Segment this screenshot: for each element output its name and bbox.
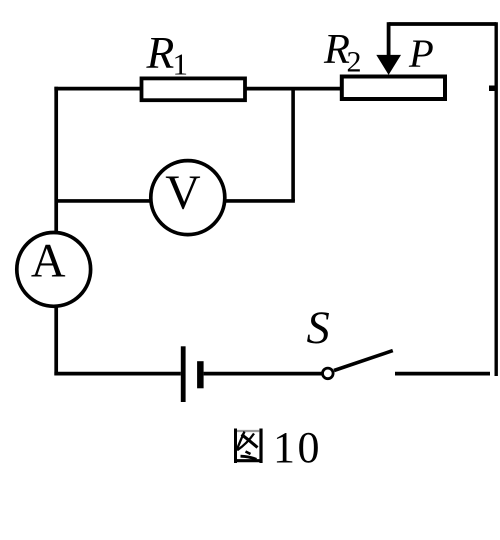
wire left vertical lower (ammeter to battery) bbox=[54, 307, 58, 375]
wire R1 right terminal to R2 left terminal bbox=[245, 87, 342, 91]
wire left vertical upper (node between R1 and ammeter) bbox=[54, 87, 58, 231]
ammeter A bbox=[17, 233, 91, 307]
wire voltmeter row left bbox=[56, 199, 150, 203]
wire right vertical rail bbox=[495, 22, 498, 376]
svg-text:A: A bbox=[31, 234, 66, 287]
battery short plate (negative) bbox=[197, 361, 204, 388]
svg-text:2: 2 bbox=[347, 46, 362, 79]
caption character 图 bbox=[234, 429, 263, 464]
wire bottom left horizontal to battery bbox=[54, 372, 180, 376]
svg-text:1: 1 bbox=[173, 46, 189, 81]
svg-text:R: R bbox=[146, 27, 175, 78]
wire middle vertical (junction to voltmeter right side) bbox=[291, 89, 295, 201]
wire battery to switch bbox=[204, 372, 322, 376]
resistor R1 bbox=[142, 78, 246, 100]
voltmeter V bbox=[151, 161, 225, 235]
switch lever bbox=[334, 351, 393, 371]
wire top-left horizontal to R1 left terminal bbox=[54, 87, 141, 91]
switch S pivot circle bbox=[323, 368, 334, 379]
wire voltmeter row right bbox=[226, 199, 295, 203]
wire switch to right rail bbox=[395, 372, 490, 376]
svg-text:10: 10 bbox=[273, 423, 322, 472]
junction stub on right rail bbox=[489, 86, 495, 92]
svg-text:V: V bbox=[165, 165, 200, 220]
wiper arrow stem of P bbox=[387, 22, 391, 58]
battery long plate (positive) bbox=[181, 346, 186, 402]
wire top horizontal (wiper to right rail) bbox=[389, 22, 497, 26]
rheostat R2 bbox=[342, 77, 445, 100]
svg-text:P: P bbox=[408, 31, 434, 76]
wiper arrowhead bbox=[376, 55, 401, 75]
svg-text:S: S bbox=[307, 303, 330, 354]
